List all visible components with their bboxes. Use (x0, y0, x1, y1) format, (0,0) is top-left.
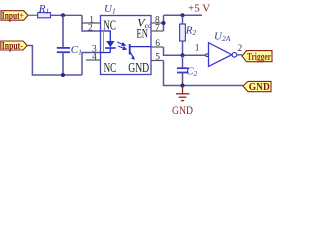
node junction at C1 bottom (61, 73, 65, 77)
svg-text:GND: GND (128, 61, 149, 76)
capacitor C2 (177, 55, 198, 85)
svg-text:7: 7 (155, 23, 160, 33)
svg-text:NC: NC (104, 60, 117, 75)
svg-text:R1: R1 (38, 3, 49, 16)
LED inside U1 (101, 31, 116, 53)
svg-text:4: 4 (92, 52, 97, 62)
pin 8 (151, 15, 164, 25)
svg-text:2: 2 (238, 44, 243, 54)
pin 4 (86, 52, 101, 62)
node junction R2 top (181, 13, 185, 17)
port Input+ (1, 10, 28, 22)
wire Input- elbow (27, 46, 82, 76)
svg-text:GND: GND (249, 82, 270, 93)
capacitor C1 (57, 44, 82, 57)
resistor R2 (180, 15, 197, 55)
ground symbol (176, 86, 190, 101)
pin 7 (151, 23, 164, 33)
svg-text:R2: R2 (185, 25, 197, 38)
svg-text:EN: EN (137, 26, 149, 40)
wire Input+ to R1 (28, 14, 38, 16)
inverter U2A (209, 43, 232, 67)
phototransistor inside U1 (130, 44, 151, 60)
wire inverter output (237, 54, 242, 56)
port Input- (1, 40, 27, 52)
svg-text:1: 1 (195, 43, 200, 53)
node junction ground (181, 84, 185, 88)
svg-text:2: 2 (88, 23, 93, 33)
svg-text:6: 6 (155, 39, 160, 49)
pin 5 (151, 52, 164, 62)
wire bracket to pin 2 (82, 15, 101, 31)
port Trigger (242, 51, 272, 64)
node junction pin8 (162, 21, 166, 25)
inverter bubble (232, 53, 237, 58)
op-amp U1 optocoupler box (101, 16, 152, 75)
wire pin 5 to ground rail (164, 61, 244, 86)
node junction R2 bottom (181, 53, 185, 57)
svg-text:U1: U1 (104, 3, 116, 16)
svg-text:+5 V: +5 V (188, 3, 210, 15)
wire bracket to pin 3 (82, 53, 101, 76)
svg-text:5: 5 (155, 52, 160, 62)
svg-text:U2A: U2A (214, 31, 231, 44)
resistor R1 (38, 3, 51, 18)
svg-text:Trigger: Trigger (247, 51, 271, 63)
pin 6 (151, 39, 164, 49)
wire pins 8-7 vertical to +5V (163, 15, 165, 31)
svg-text:GND: GND (172, 105, 193, 117)
svg-text:C1: C1 (71, 44, 82, 57)
node junction at C1 top (61, 13, 65, 17)
light arrows (117, 42, 126, 49)
svg-text:C2: C2 (186, 66, 197, 79)
wire R1 to pin bracket (51, 14, 83, 16)
svg-text:Input+: Input+ (2, 10, 24, 22)
input pin marker (206, 54, 209, 57)
wire pin 6 to inverter input (164, 47, 207, 55)
svg-text:Input-: Input- (2, 40, 23, 52)
wire +5V rail (164, 14, 203, 16)
wire C1 bottom to lower rail (62, 52, 64, 75)
port GND (243, 81, 271, 92)
wire junction down to C1 (62, 15, 64, 47)
pin 1 (82, 15, 101, 25)
